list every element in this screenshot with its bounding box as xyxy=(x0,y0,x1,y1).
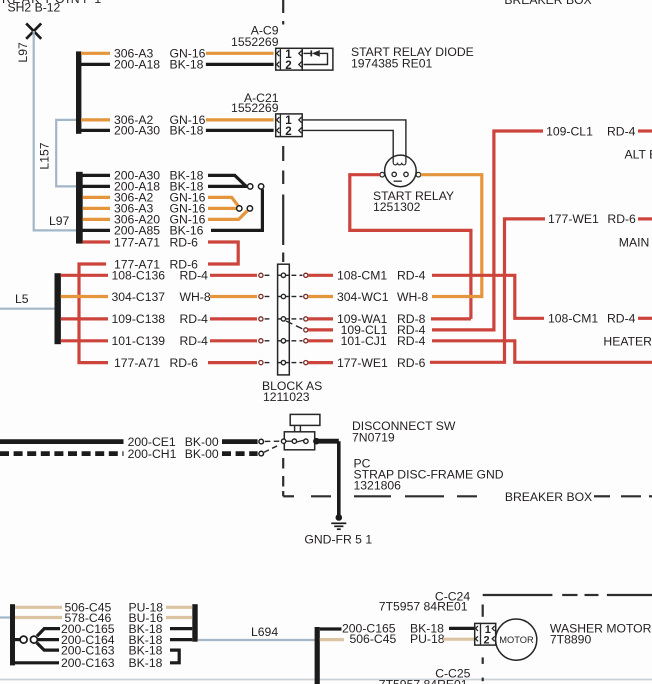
svg-text:304-WC1: 304-WC1 xyxy=(337,290,389,304)
bus bar B4 (junction bar for block wires) xyxy=(55,273,61,344)
wire WH-8 relay output (right terminal to 304-WC1) xyxy=(421,175,482,297)
wire 200-A18 BK-18 (to A-C9 pin 2) xyxy=(81,58,274,72)
svg-text:L97: L97 xyxy=(16,42,30,63)
BLOCK AS terminal row 2 (304) xyxy=(259,294,308,298)
motor WASHER MOTOR 7T8890 xyxy=(496,619,537,660)
wire 177-A71 RD-6 red bus (links rows) xyxy=(79,264,108,363)
wire segment 200-A30 to splice S1 xyxy=(208,175,246,186)
wire 109-C138 RD-4 (to BLOCK AS) xyxy=(61,312,257,326)
BLOCK AS terminal row 4 (101) xyxy=(259,339,308,343)
splice S1 (200-A30/200-A18/200-A85) xyxy=(248,184,253,189)
bus bar B7 (washer motor junction bar) xyxy=(315,627,320,684)
wire 200-A85 BK-16 (from splice S1) xyxy=(83,224,204,238)
wire 200-A30 BK-18 (to A-C21 pin 2) xyxy=(81,124,274,138)
svg-text:HEATER: HEATER xyxy=(603,334,652,348)
svg-text:200-A18: 200-A18 xyxy=(114,58,160,72)
terminal block BLOCK AS 1211023 (outline) xyxy=(278,264,290,375)
wire segment 306-A3 to splice S2 xyxy=(208,207,236,210)
wire 306-A3 GN-16 (to splice S2) xyxy=(83,202,206,216)
svg-text:1552269: 1552269 xyxy=(231,35,279,49)
svg-text:RD-4: RD-4 xyxy=(397,269,426,283)
svg-text:RD-6: RD-6 xyxy=(170,356,199,370)
wire 108-CM1 RD-4 jog to HEATER side xyxy=(432,275,544,318)
wire 108-CM1 RD-4 (block output) xyxy=(308,269,425,283)
svg-text:200-C163: 200-C163 xyxy=(61,656,115,670)
svg-text:BK-18: BK-18 xyxy=(170,58,204,72)
wire L-line (bottom edge, light) xyxy=(0,679,652,681)
BLOCK AS terminal row 3 (109) xyxy=(259,317,308,321)
wire RD-6 relay coil supply (left terminal to 109-WA1) xyxy=(350,175,471,319)
wire L694 (blue) to washer motor bar xyxy=(0,616,10,618)
wire 200-A30 BK-18 (to splice S1) xyxy=(83,169,204,183)
svg-text:BK-18: BK-18 xyxy=(170,124,204,138)
splice S2 (306-A2/306-A3/306-A20) xyxy=(237,206,242,211)
svg-text:2: 2 xyxy=(285,125,291,138)
svg-text:ALT BRKR: ALT BRKR xyxy=(625,148,652,162)
wire segment 306-A20 to splice S2 xyxy=(208,211,247,220)
switch DISCONNECT SW 7N0719 xyxy=(281,414,320,449)
svg-text:WH-8: WH-8 xyxy=(397,290,428,304)
wire 109-CL1 RD-4 (block tap output) xyxy=(308,323,425,337)
svg-text:RD-4: RD-4 xyxy=(607,124,636,138)
wire segment 306-A2 to splice S2 xyxy=(208,197,238,206)
bus bar B3 (junction bar, splice group) xyxy=(76,172,83,244)
svg-text:RD-4: RD-4 xyxy=(180,269,209,283)
svg-text:RD-6: RD-6 xyxy=(170,235,199,249)
wire segment 177-A71 to BLOCK AS xyxy=(208,361,257,364)
svg-text:7T5957 84RE01: 7T5957 84RE01 xyxy=(379,600,468,614)
svg-text:506-C45: 506-C45 xyxy=(350,632,397,646)
svg-text:BREAKER BOX: BREAKER BOX xyxy=(505,490,592,504)
relay START RELAY 1251302 xyxy=(380,155,421,187)
wire 200-C165 BK-18 (to C-C24 pin 1) xyxy=(320,622,474,636)
wire 306-A3 GN-16 (to A-C9 pin 1) xyxy=(81,47,274,61)
wire segment 200-A18 to splice S1 xyxy=(208,185,247,188)
svg-text:RD-4: RD-4 xyxy=(180,334,209,348)
svg-text:L97: L97 xyxy=(49,214,70,228)
wire 306-A2 GN-16 (to A-C21 pin 1) xyxy=(81,113,274,127)
svg-text:MOTOR: MOTOR xyxy=(499,635,534,645)
wire 306-A2 GN-16 (to splice S2) xyxy=(83,191,206,205)
BLOCK AS terminal row 1 (108) xyxy=(259,273,308,277)
BLOCK AS terminal row 5 (177) xyxy=(259,360,308,364)
wire 506-C45 PU-18 xyxy=(15,601,192,615)
svg-text:109-CL1: 109-CL1 xyxy=(546,124,593,138)
breaker box boundary (dashed, bottom-left corner) xyxy=(283,458,652,496)
wire 109-WA1 RD-8 (block output) xyxy=(308,312,425,326)
svg-text:BK-18: BK-18 xyxy=(129,656,163,670)
start relay diode RE01 (diode symbol in box) xyxy=(302,48,333,70)
wire 101-CJ1 RD-4 (block output) xyxy=(308,334,425,348)
svg-text:WH-8: WH-8 xyxy=(180,290,211,304)
svg-text:1974385 RE01: 1974385 RE01 xyxy=(351,56,433,70)
svg-text:108-C136: 108-C136 xyxy=(112,269,166,283)
svg-text:7T5957 84RE01: 7T5957 84RE01 xyxy=(379,677,468,684)
svg-text:101-C139: 101-C139 xyxy=(112,334,166,348)
bus bar B6 (right junction bar) xyxy=(192,604,197,642)
wire 304-WC1 WH-8 (block output) xyxy=(308,290,428,304)
svg-text:RD-4: RD-4 xyxy=(607,312,636,326)
svg-text:108-CM1: 108-CM1 xyxy=(548,312,598,326)
svg-text:BK-00: BK-00 xyxy=(185,447,219,461)
svg-text:1552269: 1552269 xyxy=(231,101,279,115)
svg-text:L694: L694 xyxy=(251,625,278,639)
svg-text:RD-4: RD-4 xyxy=(397,334,426,348)
wire 200-C164 BK-18 (splice S3) xyxy=(15,633,192,647)
wire 200-A18 BK-18 (to splice S1) xyxy=(83,180,204,194)
wire 578-C46 BU-16 xyxy=(15,611,192,625)
svg-text:108-CM1: 108-CM1 xyxy=(337,269,387,283)
svg-text:L157: L157 xyxy=(37,142,51,169)
svg-text:1321806: 1321806 xyxy=(354,479,402,493)
svg-text:L5: L5 xyxy=(15,292,29,306)
svg-text:1211023: 1211023 xyxy=(263,390,310,404)
wire 177-WE1 RD-6 riser to MAIN xyxy=(430,219,545,362)
wire L97 (blue) from break point to bus bar B3 xyxy=(34,31,76,230)
svg-text:7N0719: 7N0719 xyxy=(352,431,395,445)
wire A-C21 pin 2 to relay coil xyxy=(302,130,393,157)
svg-text:304-C137: 304-C137 xyxy=(112,290,166,304)
BLOCK AS tap (dashed diagonal to 109-CL1) xyxy=(286,321,303,329)
wire 200-C163 BK-18 (lower) xyxy=(15,656,163,670)
svg-text:GND-FR 5 1: GND-FR 5 1 xyxy=(304,532,372,546)
svg-text:177-A71: 177-A71 xyxy=(114,356,160,370)
wire 177-A71 RD-6 (jumper to lower 177-A71) xyxy=(83,235,199,249)
wire segment 177-A71 U-jumper xyxy=(208,242,238,264)
wire 304-C137 WH-8 (to BLOCK AS) xyxy=(61,290,257,304)
svg-text:1251302: 1251302 xyxy=(373,200,421,214)
connector A-C9 1552269 xyxy=(231,24,302,72)
wire 200-CE1 BK-00 (battery cable) xyxy=(0,435,281,449)
svg-text:177-A71: 177-A71 xyxy=(114,235,160,249)
wire segment splice S1 to 200-A85 xyxy=(211,189,262,230)
svg-text:2: 2 xyxy=(483,634,489,646)
wire L5 (blue) to bus bar B4 xyxy=(0,308,55,310)
svg-text:2: 2 xyxy=(285,59,291,72)
svg-text:RD-6: RD-6 xyxy=(397,356,426,370)
wire 200-C163 BK-18 (upper, to splice S3) xyxy=(37,643,179,663)
connector A-C21 1552269 xyxy=(231,91,302,138)
cab boundary (dashed, washer motor) xyxy=(483,595,652,681)
splice S3 (200-C165/C164/C163) xyxy=(20,636,27,643)
svg-text:109-C138: 109-C138 xyxy=(112,312,166,326)
svg-text:7T8890: 7T8890 xyxy=(550,633,592,647)
wire segment 109-WA1 to relay branch xyxy=(431,317,471,320)
wire 109-CL1 RD-4 riser to ALT BRKR xyxy=(432,131,543,330)
wire 506-C45 PU-18 (to C-C24 pin 2) xyxy=(320,632,474,646)
svg-text:177-WE1: 177-WE1 xyxy=(337,356,388,370)
bus bar B5 (left junction bar) xyxy=(10,604,15,665)
break point X (SH2 B-12) xyxy=(26,23,41,38)
wire 200-CH1 BK-00 (dashed battery cable) xyxy=(0,444,280,461)
wire 306-A20 GN-16 (to splice S2) xyxy=(83,213,206,227)
wire 101-CJ1 RD-4 jog down to right edge xyxy=(432,341,652,363)
wire 101-C139 RD-4 (to BLOCK AS) xyxy=(61,334,257,348)
bus bar B1 (junction bar, rows A3/A18/A2/A30) xyxy=(76,51,81,133)
svg-text:SH2 B-12: SH2 B-12 xyxy=(8,1,61,15)
svg-text:200-CH1: 200-CH1 xyxy=(128,447,177,461)
svg-text:RD-4: RD-4 xyxy=(180,312,209,326)
svg-text:177-WE1: 177-WE1 xyxy=(548,212,599,226)
wire 108-C136 RD-4 (to BLOCK AS) xyxy=(61,269,257,283)
wire A-C21 pin 1 to relay coil xyxy=(302,120,406,156)
svg-text:BREAKER BOX: BREAKER BOX xyxy=(504,0,591,7)
breaker box boundary (dashed, top-left vertical) xyxy=(282,0,284,262)
wire switch to frame ground strap xyxy=(316,439,338,444)
connector C-C24 (pins 1,2) xyxy=(475,623,496,646)
wire 177-WE1 RD-6 (block output) xyxy=(308,356,425,370)
wire L157 (blue) linking bus bars B1 and B3 xyxy=(56,120,76,186)
svg-text:200-A30: 200-A30 xyxy=(114,124,160,138)
svg-text:RD-6: RD-6 xyxy=(607,212,636,226)
svg-text:PU-18: PU-18 xyxy=(410,632,445,646)
wire 200-C165 BK-18 (to splice S3) xyxy=(37,622,192,636)
svg-text:MAIN: MAIN xyxy=(619,236,649,250)
ground GND-FR 5 1 xyxy=(331,514,346,529)
svg-text:101-CJ1: 101-CJ1 xyxy=(341,334,387,348)
